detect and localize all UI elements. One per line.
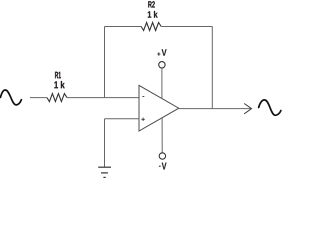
ground — [98, 167, 111, 177]
output wire — [179, 108, 252, 110]
-V label — [162, 163, 167, 170]
wire feedback top-right — [161, 26, 212, 28]
input source AC squiggle — [0, 90, 21, 105]
minus input pin label — [142, 96, 144, 98]
-V supply stem wire — [161, 118, 163, 153]
resistor R1 — [47, 94, 67, 102]
+V supply stem wire — [161, 68, 163, 98]
label R2 — [148, 1, 155, 7]
wire input left segment — [30, 97, 47, 99]
op-amp U1 triangle — [139, 85, 179, 131]
wire ground vertical — [104, 119, 106, 167]
wire feedback right vertical to output — [211, 27, 213, 109]
label R1 — [55, 72, 61, 79]
plus input pin label — [141, 118, 144, 121]
+V label — [162, 49, 167, 56]
wire feedback top-left — [105, 26, 142, 28]
wire feedback left vertical — [104, 27, 106, 98]
+V supply terminal circle — [159, 62, 165, 68]
wire noninverting input horizontal — [105, 118, 140, 120]
label R1 value 1 k — [54, 81, 64, 88]
output arrowhead — [244, 104, 251, 114]
label R2 value 1 k — [148, 11, 158, 18]
-V supply terminal circle — [159, 153, 165, 159]
wire input right segment to op-amp — [67, 97, 139, 99]
output AC squiggle — [259, 100, 281, 115]
resistor R2 — [141, 23, 161, 31]
